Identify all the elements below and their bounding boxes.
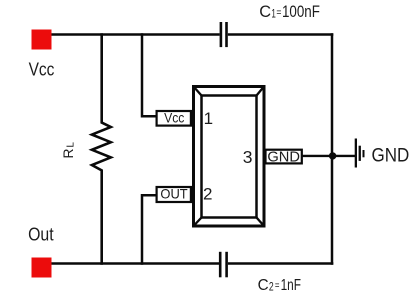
svg-text:1: 1: [271, 7, 276, 21]
svg-text:OUT: OUT: [160, 186, 188, 202]
wire from top rail to pin Vcc: [142, 33, 157, 116]
wire from pin OUT to bottom rail: [142, 195, 157, 264]
svg-text:L: L: [65, 142, 76, 148]
label RL: [60, 142, 76, 159]
terminal Out (red square): [32, 258, 52, 278]
resistor RL: [92, 33, 111, 264]
svg-text:3: 3: [243, 147, 253, 167]
svg-text:=: =: [275, 280, 280, 292]
IC U1 bevel corner bottom-left: [194, 218, 202, 227]
svg-text:Vcc: Vcc: [29, 60, 55, 80]
IC U1 bevel corner top-left: [194, 87, 202, 96]
pin box Vcc: [157, 111, 191, 126]
wire bottom rail right (C2 to bottom-right corner): [228, 262, 333, 265]
svg-text:GND: GND: [372, 145, 410, 167]
svg-text:=: =: [276, 7, 281, 19]
svg-text:1: 1: [204, 109, 213, 128]
svg-text:2: 2: [269, 279, 274, 293]
svg-text:1nF: 1nF: [281, 277, 302, 294]
label C1=100nF: [259, 2, 320, 21]
terminal Vcc (red square): [32, 30, 52, 50]
IC U1 bevel corner bottom-right: [257, 218, 265, 227]
capacitor C2: [219, 252, 228, 277]
capacitor C1: [220, 22, 228, 47]
ground symbol: [355, 139, 365, 168]
svg-text:Vcc: Vcc: [164, 111, 184, 126]
junction dot: [329, 152, 336, 159]
svg-text:GND: GND: [267, 150, 300, 166]
IC U1 bevel corner top-right: [257, 87, 265, 96]
wire top rail left (Vcc square to C1): [52, 33, 220, 36]
wire top rail right (C1 to top-right corner): [228, 33, 333, 36]
svg-text:C: C: [258, 277, 269, 294]
svg-text:C: C: [259, 2, 271, 21]
wire right rail: [331, 33, 334, 264]
pin box OUT: [157, 187, 191, 202]
svg-text:R: R: [60, 149, 76, 159]
svg-text:100nF: 100nF: [282, 2, 320, 21]
wire bottom rail left (Out square to C2): [52, 262, 220, 265]
label C2=1nF: [258, 277, 302, 294]
wire from pin GND to junction: [303, 155, 356, 157]
IC U1 package inner outline: [202, 96, 257, 218]
IC U1 package outer outline: [194, 87, 265, 227]
svg-text:Out: Out: [28, 225, 53, 245]
pin box GND: [266, 150, 302, 164]
svg-text:2: 2: [203, 185, 212, 204]
